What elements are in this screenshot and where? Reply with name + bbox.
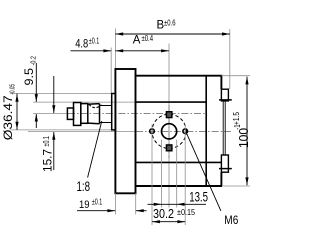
- extension line dia36.47 top: [10, 93, 115, 95]
- hidden keyway (dashed): [89, 104, 102, 107]
- svg-text:19: 19: [79, 199, 90, 211]
- svg-text:-1: -1: [233, 124, 242, 130]
- port tab lower: [221, 155, 228, 172]
- svg-text:±0.1: ±0.1: [89, 36, 100, 45]
- extension line port left (30.2): [151, 125, 153, 226]
- pump body outline top: [136, 76, 222, 90]
- extension line port right (30.2): [184, 125, 186, 226]
- svg-text:+1.5: +1.5: [232, 112, 241, 125]
- extension line bore left tangent (13.5): [161, 140, 163, 208]
- spigot boss: [112, 94, 116, 130]
- shaft axis centerline: [33, 113, 68, 115]
- dim line 15.7 lower: [53, 132, 55, 170]
- extension line spigot face (4.8 dim): [110, 48, 112, 94]
- body internal horizontal lower: [136, 161, 222, 163]
- flange plate: [115, 69, 135, 193]
- extension line dia36.47 bottom: [10, 129, 115, 131]
- dim line A: [115, 50, 168, 52]
- extension line flange face (A/B dims): [114, 29, 116, 70]
- svg-text:-0.05: -0.05: [8, 84, 17, 95]
- svg-text:M6: M6: [224, 215, 238, 227]
- svg-text:±0.4: ±0.4: [142, 34, 154, 43]
- dim line 15.7 upper: [53, 76, 55, 113]
- dim line B: [115, 33, 229, 35]
- shaft tenon into bore: [100, 106, 112, 123]
- dim line 100: [246, 77, 248, 186]
- shaft washer: [81, 104, 88, 124]
- dim line dia36.47: [16, 94, 18, 130]
- svg-text:A: A: [133, 34, 141, 46]
- svg-text:13.5: 13.5: [189, 188, 208, 204]
- extension line body bottom right (100 dim): [222, 185, 250, 187]
- shaft nut: [74, 103, 81, 126]
- port hole left: [150, 129, 155, 134]
- face center vertical centerline: [168, 105, 170, 158]
- right side strip between tabs: [223, 101, 225, 155]
- bolt circle (dashed): [152, 114, 186, 148]
- svg-text:15.7: 15.7: [41, 149, 55, 172]
- body internal vertical: [205, 76, 207, 186]
- square plug top: [166, 112, 172, 118]
- svg-text:30.2: 30.2: [153, 206, 174, 221]
- square plug bottom: [166, 145, 172, 151]
- shaft thread stub: [67, 108, 73, 119]
- dim line 19 right: [136, 210, 147, 212]
- svg-text:±0.1: ±0.1: [92, 198, 103, 207]
- second gear axis centerline right part: [136, 130, 231, 132]
- extension line body top right (100 dim): [221, 75, 250, 77]
- dim line 9.5 upper: [35, 63, 37, 102]
- shaft taper section: [88, 104, 100, 124]
- leader 1:8 taper: [88, 121, 102, 178]
- extension line flange left (19): [114, 193, 116, 214]
- dim line 30.2: [152, 221, 185, 223]
- extension line pump center vertical (A dim + 13.5): [168, 44, 170, 208]
- dim line 19 left: [77, 210, 115, 212]
- port tab lower lip: [219, 168, 232, 170]
- pump body outline bottom: [136, 172, 223, 186]
- extension line key top (9.5 dim): [33, 101, 135, 103]
- svg-text:9.5: 9.5: [22, 68, 36, 86]
- port tab upper: [221, 89, 228, 101]
- svg-text:100: 100: [237, 128, 250, 148]
- extension line flange right (19): [135, 193, 137, 214]
- dim line 9.5 lower: [35, 114, 37, 128]
- svg-text:±0.15: ±0.15: [177, 208, 195, 217]
- body internal horizontal upper: [136, 101, 207, 103]
- dim line 13.5: [148, 203, 207, 205]
- central bore circle: [162, 124, 177, 139]
- svg-text:-0.2: -0.2: [29, 56, 38, 66]
- svg-text:±0.1: ±0.1: [42, 136, 51, 147]
- dim line 4.8: [71, 50, 112, 52]
- port hole right: [183, 129, 188, 134]
- svg-text:1:8: 1:8: [77, 178, 91, 194]
- leader M6: [187, 134, 221, 211]
- extension line right tabs (B dim): [229, 29, 231, 89]
- extension line bore right tangent (13.5): [176, 140, 178, 208]
- second gear axis centerline left part: [28, 131, 136, 133]
- svg-text:±0.6: ±0.6: [164, 18, 176, 27]
- svg-text:4.8: 4.8: [75, 37, 88, 51]
- port tab upper lip: [219, 99, 232, 101]
- svg-text:Ø36.47: Ø36.47: [1, 95, 15, 140]
